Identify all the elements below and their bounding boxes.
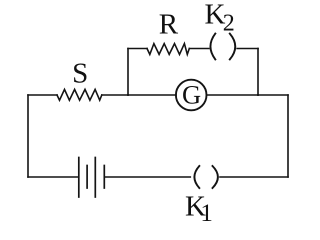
svg-text:G: G bbox=[182, 80, 201, 110]
resistor R bbox=[147, 44, 189, 55]
wire: key K1 to bottom-right corner bbox=[220, 176, 288, 178]
wire: resistor R to key K2 bbox=[189, 48, 209, 50]
wire: battery to key K1 bbox=[104, 176, 190, 178]
key K2 (plug key, right contact) bbox=[230, 34, 235, 60]
wire: node A to galvanometer bbox=[128, 94, 176, 96]
wire: branch right vertical (down to node B) bbox=[257, 49, 259, 96]
wire: left vertical bbox=[27, 95, 29, 177]
battery B1: plate 4 (short) bbox=[103, 166, 105, 189]
node A (junction of branch and main row, x=128) bbox=[127, 94, 129, 96]
wire: resistor S to node A bbox=[102, 94, 128, 96]
battery B1: plate 2 (short) bbox=[86, 166, 88, 189]
wire: branch left vertical (node A up to branch) bbox=[127, 49, 129, 96]
wire: branch top, corner to resistor R bbox=[128, 48, 147, 50]
svg-text:S: S bbox=[72, 58, 88, 90]
wire: right vertical bbox=[287, 95, 289, 177]
svg-text:2: 2 bbox=[223, 11, 235, 37]
battery B1: plate 1 (long) bbox=[78, 158, 80, 198]
key K1 (plug key, right contact) bbox=[213, 166, 218, 188]
wire: key K2 to branch right corner bbox=[237, 48, 258, 50]
svg-text:R: R bbox=[159, 9, 179, 41]
resistor S bbox=[57, 89, 102, 100]
wire: middle row, left corner to resistor S bbox=[28, 94, 57, 96]
node B (junction of branch and main row, x=258) bbox=[257, 94, 259, 96]
wire: galvanometer to node B bbox=[207, 94, 259, 96]
wire: node B to top-right corner bbox=[258, 94, 288, 96]
svg-text:1: 1 bbox=[200, 200, 213, 227]
galvanometer G bbox=[176, 80, 207, 111]
key K2 (plug key, left contact) bbox=[210, 34, 215, 60]
wire: bottom row, left corner to battery bbox=[28, 176, 78, 178]
battery B1: plate 3 (long) bbox=[94, 158, 96, 198]
key K1 (plug key, left contact) bbox=[194, 166, 199, 188]
